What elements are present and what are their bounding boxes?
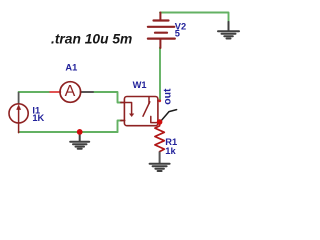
svg-text:A: A [65,83,76,100]
svg-text:1k: 1k [165,146,176,156]
svg-text:W1: W1 [133,80,147,90]
svg-text:out: out [162,88,174,105]
svg-text:1K: 1K [32,113,44,123]
svg-text:A1: A1 [65,63,77,73]
svg-text:5: 5 [175,28,180,38]
svg-text:.tran 10u 5m: .tran 10u 5m [51,32,132,47]
